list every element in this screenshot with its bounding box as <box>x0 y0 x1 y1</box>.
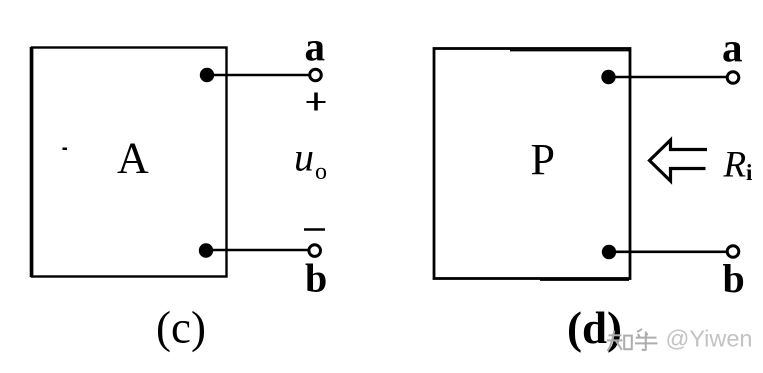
network block A (box) <box>32 47 227 277</box>
svg-text:A: A <box>117 134 149 183</box>
plus sign <box>307 93 326 111</box>
svg-text:R: R <box>723 145 747 186</box>
terminal a (figure d) <box>727 72 739 84</box>
terminal b (figure c) <box>309 245 321 257</box>
svg-text:a: a <box>722 25 743 71</box>
junction dot top (figure c) <box>200 68 214 82</box>
svg-text:(d): (d) <box>567 303 622 353</box>
wire b (bottom, figure c) <box>205 249 308 252</box>
label Ri (input resistance) <box>723 145 754 186</box>
speck inside box A <box>63 148 68 151</box>
svg-text:P: P <box>531 135 555 184</box>
network block P (box) <box>434 49 630 281</box>
junction dot bottom (figure c) <box>199 243 213 257</box>
svg-text:b: b <box>723 256 745 301</box>
svg-text:b: b <box>305 256 327 301</box>
svg-text:@Yiwen: @Yiwen <box>666 326 753 352</box>
minus sign <box>304 228 325 230</box>
junction dot bottom (figure d) <box>602 245 616 259</box>
junction dot top (figure d) <box>601 70 615 84</box>
wire a (top, figure c) <box>206 74 309 77</box>
svg-text:o: o <box>315 159 327 185</box>
svg-text:(c): (c) <box>156 303 206 353</box>
watermark zhihu characters <box>607 329 658 351</box>
terminal a (figure c) <box>310 69 322 81</box>
svg-text:a: a <box>305 24 326 70</box>
hollow arrow pointing left (input resistance direction) <box>650 140 708 181</box>
wire b (bottom, figure d) <box>608 251 727 254</box>
svg-text:u: u <box>294 135 314 180</box>
label uo (output voltage) <box>294 135 327 186</box>
wire a (top, figure d) <box>607 76 727 79</box>
svg-text:i: i <box>746 160 753 185</box>
terminal b (figure d) <box>727 246 739 258</box>
